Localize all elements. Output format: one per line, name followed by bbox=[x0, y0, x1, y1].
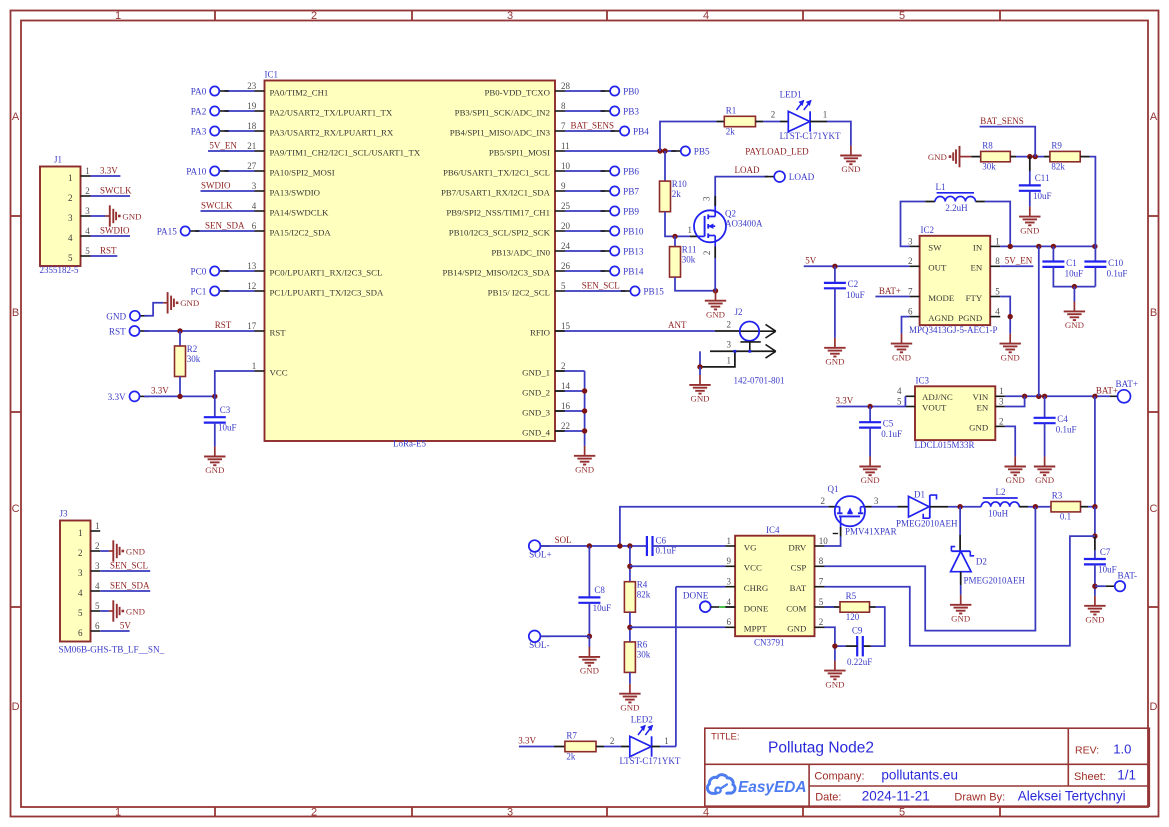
svg-text:GND: GND bbox=[825, 679, 844, 689]
svg-text:TITLE:: TITLE: bbox=[711, 732, 740, 743]
junction D2 node bbox=[957, 504, 962, 509]
svg-text:PB5/SPI1_MOSI: PB5/SPI1_MOSI bbox=[489, 147, 550, 157]
svg-text:1: 1 bbox=[688, 225, 693, 235]
svg-text:14: 14 bbox=[561, 381, 571, 391]
svg-text:IC2: IC2 bbox=[921, 225, 935, 235]
svg-text:IC4: IC4 bbox=[766, 525, 780, 535]
svg-text:2k: 2k bbox=[726, 126, 736, 136]
capacitor C10 0.1uF bbox=[1094, 246, 1096, 261]
svg-text:EN: EN bbox=[970, 263, 982, 273]
junction IN/L1 bbox=[1008, 244, 1013, 249]
svg-text:C7: C7 bbox=[1100, 547, 1111, 557]
wire IC3 GND pin to ground bbox=[1005, 426, 1015, 456]
svg-text:30k: 30k bbox=[682, 254, 696, 264]
inductor L2 10uH bbox=[981, 487, 1019, 518]
svg-text:GND: GND bbox=[1020, 225, 1039, 235]
port PB14 bbox=[601, 266, 644, 276]
ground below LED1 bbox=[840, 146, 861, 175]
net label SWDIO on J1 pin4 bbox=[91, 235, 131, 237]
svg-text:GND: GND bbox=[106, 311, 126, 321]
svg-text:IC3: IC3 bbox=[916, 376, 930, 386]
svg-text:GND: GND bbox=[126, 606, 145, 616]
svg-text:L1: L1 bbox=[936, 182, 946, 192]
svg-text:5: 5 bbox=[897, 396, 902, 406]
svg-text:VIN: VIN bbox=[973, 392, 989, 402]
wire PB13 bbox=[565, 250, 605, 252]
IC1 left pins with names and numbers bbox=[247, 81, 421, 377]
junction C4 bbox=[1042, 394, 1047, 399]
svg-text:PB15/ I2C2_SCL: PB15/ I2C2_SCL bbox=[488, 287, 550, 297]
port PA15 bbox=[157, 226, 200, 236]
port GND bbox=[106, 311, 149, 322]
svg-text:3: 3 bbox=[78, 568, 83, 578]
capacitor C3 10uF bbox=[214, 396, 216, 417]
port PB0 bbox=[601, 86, 640, 96]
wire R8 to junction bbox=[1010, 156, 1016, 158]
resistor R11 30k bbox=[674, 236, 676, 246]
R4 R6 divider bbox=[629, 546, 631, 582]
svg-text:SEN_SDA: SEN_SDA bbox=[110, 580, 150, 590]
svg-text:PB0: PB0 bbox=[623, 87, 639, 97]
svg-text:4: 4 bbox=[727, 597, 732, 607]
svg-text:2.2uH: 2.2uH bbox=[945, 203, 968, 213]
svg-text:R7: R7 bbox=[566, 730, 577, 740]
wire Q1 drain to D1 bbox=[865, 506, 871, 508]
svg-text:0.1uF: 0.1uF bbox=[656, 546, 677, 556]
svg-text:C10: C10 bbox=[1108, 258, 1124, 268]
svg-text:9: 9 bbox=[561, 181, 566, 191]
svg-text:5V_EN: 5V_EN bbox=[209, 140, 237, 150]
port PB4 bbox=[611, 126, 650, 136]
svg-text:R5: R5 bbox=[846, 591, 857, 601]
J2 pin3 node square a bbox=[734, 350, 737, 353]
svg-text:PA2/USART2_TX/LPUART1_TX: PA2/USART2_TX/LPUART1_TX bbox=[270, 107, 393, 117]
svg-text:COM: COM bbox=[786, 603, 806, 613]
capacitor C8 plates bbox=[578, 585, 611, 613]
junction C7 top bbox=[1092, 533, 1097, 538]
ground below IC3 GND pin bbox=[1005, 457, 1026, 486]
svg-text:5: 5 bbox=[995, 286, 1000, 296]
svg-text:Company:: Company: bbox=[814, 771, 864, 783]
svg-text:26: 26 bbox=[561, 261, 571, 271]
svg-text:PA9/TIM1_CH2/I2C1_SCL/USART1_T: PA9/TIM1_CH2/I2C1_SCL/USART1_TX bbox=[270, 147, 421, 157]
svg-text:2: 2 bbox=[908, 256, 913, 266]
svg-text:4: 4 bbox=[703, 10, 709, 22]
svg-text:Q2: Q2 bbox=[725, 209, 736, 219]
svg-text:D: D bbox=[12, 701, 20, 713]
AGND wire to ground bbox=[902, 317, 910, 334]
svg-text:30k: 30k bbox=[982, 161, 996, 171]
svg-text:0.1uF: 0.1uF bbox=[1107, 268, 1128, 278]
svg-text:GND: GND bbox=[787, 624, 806, 634]
wire PB0 bbox=[565, 90, 605, 92]
junction R3/BAT+ riser bbox=[1092, 504, 1097, 509]
svg-text:GND: GND bbox=[690, 394, 709, 404]
wire to ground below C8 bbox=[588, 636, 590, 647]
svg-text:SWCLK: SWCLK bbox=[201, 200, 233, 210]
svg-text:27: 27 bbox=[247, 161, 257, 171]
svg-text:GND: GND bbox=[841, 164, 860, 174]
inductor L1 2.2uH with wires bbox=[901, 202, 926, 247]
svg-text:8: 8 bbox=[819, 556, 824, 566]
svg-text:PB9: PB9 bbox=[623, 207, 639, 217]
svg-text:GND: GND bbox=[180, 298, 199, 308]
svg-text:5: 5 bbox=[561, 281, 566, 291]
svg-text:PB4/SPI1_MISO/ADC_IN3: PB4/SPI1_MISO/ADC_IN3 bbox=[450, 127, 551, 137]
svg-text:3: 3 bbox=[727, 577, 732, 587]
svg-text:BAT-: BAT- bbox=[1118, 571, 1138, 581]
svg-text:VOUT: VOUT bbox=[922, 402, 947, 412]
svg-text:GND: GND bbox=[205, 465, 224, 475]
wire PB15 / net SEN_SCL bbox=[565, 290, 626, 292]
svg-text:PB6/USART1_TX/I2C1_SCL: PB6/USART1_TX/I2C1_SCL bbox=[443, 167, 550, 177]
wire PB5 down to R10 bbox=[664, 151, 666, 181]
net label SEN_SDA on J3 pin4 bbox=[100, 590, 150, 592]
svg-text:28: 28 bbox=[561, 81, 571, 91]
resistor R9 82k bbox=[1050, 140, 1080, 171]
port PA2 bbox=[191, 106, 229, 116]
svg-text:SWDIO: SWDIO bbox=[100, 225, 130, 235]
svg-text:C11: C11 bbox=[1035, 173, 1050, 183]
svg-text:Drawn By:: Drawn By: bbox=[954, 792, 1005, 804]
svg-text:BAT_SENS: BAT_SENS bbox=[571, 120, 615, 130]
svg-text:GND: GND bbox=[892, 352, 911, 362]
svg-text:B: B bbox=[1150, 307, 1157, 319]
svg-text:RST: RST bbox=[109, 327, 126, 337]
svg-text:10uF: 10uF bbox=[1033, 191, 1052, 201]
svg-text:15: 15 bbox=[561, 321, 571, 331]
svg-text:PA15: PA15 bbox=[157, 227, 177, 237]
diode D1 PMEG2010AEH bbox=[896, 490, 958, 529]
svg-text:25: 25 bbox=[561, 201, 571, 211]
ground below C1 C10 bbox=[1064, 302, 1085, 331]
svg-text:4: 4 bbox=[68, 233, 73, 243]
svg-text:1: 1 bbox=[95, 521, 100, 531]
junction 3.3V/C3 bbox=[212, 394, 217, 399]
junction IN/down-wire bbox=[1036, 244, 1041, 249]
svg-text:J3: J3 bbox=[60, 508, 69, 518]
net label SWDIO on PA13 bbox=[201, 190, 255, 192]
capacitor C1 10uF bbox=[1052, 246, 1054, 261]
capacitor C3 plates bbox=[204, 405, 237, 433]
svg-text:PA10: PA10 bbox=[186, 167, 206, 177]
svg-text:2: 2 bbox=[311, 807, 317, 819]
wire PC0 bbox=[225, 270, 255, 272]
IC4 GND pin wire bbox=[825, 627, 835, 660]
power flag GND on J1 pin3 bbox=[105, 205, 141, 226]
svg-text:PC1/LPUART1_TX/I2C3_SDA: PC1/LPUART1_TX/I2C3_SDA bbox=[270, 287, 384, 297]
svg-text:D: D bbox=[1150, 701, 1158, 713]
diode D2 PMEG2010AEH (freewheel) bbox=[959, 507, 961, 535]
svg-text:EasyEDA: EasyEDA bbox=[738, 779, 806, 796]
svg-text:EN: EN bbox=[976, 402, 988, 412]
wire PB5 to R1 bbox=[660, 122, 717, 152]
svg-text:1/1: 1/1 bbox=[1117, 768, 1136, 783]
svg-text:LTST-C171YKT: LTST-C171YKT bbox=[780, 131, 841, 141]
junction PGND bbox=[1008, 314, 1013, 319]
wire L2 to R3 bbox=[1019, 506, 1028, 508]
resistor R2 30k body bbox=[175, 344, 201, 377]
svg-text:4: 4 bbox=[897, 386, 902, 396]
FTY/PGND wire to ground bbox=[1000, 297, 1010, 334]
svg-text:3: 3 bbox=[252, 181, 257, 191]
VIN row wire to BAT+ port bbox=[1005, 395, 1110, 397]
svg-text:10: 10 bbox=[561, 161, 571, 171]
wire Q2 source down bbox=[714, 247, 716, 259]
wire D2 anode to ground bbox=[960, 572, 962, 585]
svg-text:GND: GND bbox=[1085, 615, 1104, 625]
resistor R10 2k bbox=[660, 179, 688, 212]
power flag GND left of R8 bbox=[928, 146, 971, 167]
svg-text:3: 3 bbox=[68, 213, 73, 223]
svg-text:3.3V: 3.3V bbox=[518, 736, 536, 746]
svg-text:13: 13 bbox=[247, 261, 257, 271]
svg-text:GND: GND bbox=[126, 546, 145, 556]
capacitor C6 plates bbox=[647, 535, 676, 556]
junction SOL- row bbox=[587, 634, 592, 639]
svg-text:PA15/I2C2_SDA: PA15/I2C2_SDA bbox=[270, 227, 332, 237]
svg-text:AGND: AGND bbox=[928, 313, 953, 323]
capacitor C4 plates bbox=[1034, 414, 1077, 435]
resistor R8 30k bbox=[981, 140, 1011, 171]
svg-text:2: 2 bbox=[85, 186, 90, 196]
svg-text:2: 2 bbox=[727, 319, 732, 329]
svg-text:C: C bbox=[1150, 503, 1158, 515]
wire PA2 bbox=[225, 110, 255, 112]
svg-text:2: 2 bbox=[999, 416, 1004, 426]
svg-text:IN: IN bbox=[973, 243, 983, 253]
junction C2 bbox=[832, 264, 837, 269]
svg-text:10uF: 10uF bbox=[1065, 268, 1084, 278]
svg-text:PGND: PGND bbox=[958, 313, 982, 323]
svg-text:C3: C3 bbox=[220, 405, 231, 415]
svg-text:2k: 2k bbox=[566, 751, 576, 761]
svg-text:GND: GND bbox=[1006, 475, 1025, 485]
wire 3.3V row to VCC bbox=[144, 395, 215, 397]
net 5V wire on OUT bbox=[804, 265, 910, 267]
port PB13 bbox=[601, 246, 644, 256]
svg-text:BAT: BAT bbox=[790, 583, 807, 593]
port PC0 bbox=[190, 266, 228, 276]
IC4 CN3791 body bbox=[735, 525, 814, 648]
svg-text:GND: GND bbox=[122, 211, 141, 221]
port SOL+ bbox=[529, 540, 552, 559]
svg-text:PMV41XPAR: PMV41XPAR bbox=[845, 526, 897, 536]
svg-text:5: 5 bbox=[78, 608, 83, 618]
wire PA0 bbox=[225, 90, 255, 92]
port PB6 bbox=[601, 166, 640, 176]
IC2 pins bbox=[908, 236, 1000, 323]
svg-text:8: 8 bbox=[995, 256, 1000, 266]
net label 5V_EN on PA9 bbox=[208, 150, 255, 152]
LED LED2 LTST-C171YKT bbox=[620, 714, 681, 766]
svg-text:5: 5 bbox=[68, 253, 73, 263]
svg-text:3.3V: 3.3V bbox=[108, 392, 126, 402]
svg-text:VCC: VCC bbox=[744, 563, 762, 573]
ground below C8 bbox=[579, 647, 600, 676]
wire PB10 bbox=[565, 230, 605, 232]
svg-text:1: 1 bbox=[727, 355, 732, 365]
net BAT_SENS wire and label bbox=[980, 127, 1036, 157]
junction VCC row bbox=[627, 564, 632, 569]
svg-text:LED2: LED2 bbox=[631, 714, 653, 724]
junction 3.3V/R2 bbox=[177, 394, 182, 399]
svg-text:GND: GND bbox=[1065, 320, 1084, 330]
svg-text:12: 12 bbox=[247, 281, 256, 291]
svg-text:21: 21 bbox=[247, 141, 256, 151]
svg-text:5: 5 bbox=[899, 10, 905, 22]
svg-text:PA10/SPI2_MOSI: PA10/SPI2_MOSI bbox=[270, 167, 335, 177]
svg-text:C2: C2 bbox=[848, 279, 859, 289]
svg-text:PC0: PC0 bbox=[190, 267, 206, 277]
connector J3 SM06B body bbox=[59, 508, 165, 654]
svg-text:PB3/SPI1_SCK/ADC_IN2: PB3/SPI1_SCK/ADC_IN2 bbox=[455, 107, 550, 117]
svg-text:C5: C5 bbox=[883, 419, 894, 429]
transistor Q1 PMV41XPAR bbox=[828, 484, 897, 536]
wire PB3 bbox=[565, 110, 605, 112]
IC1 ground pins bus wire bbox=[555, 370, 565, 372]
svg-text:4: 4 bbox=[78, 588, 83, 598]
svg-text:1: 1 bbox=[115, 807, 121, 819]
wire RFIO to J2 / net ANT bbox=[555, 330, 565, 332]
svg-text:GND: GND bbox=[1001, 352, 1020, 362]
title block table bbox=[705, 728, 1150, 806]
connector J2 142-0701-801 bbox=[701, 307, 785, 385]
svg-text:AO3400A: AO3400A bbox=[725, 219, 763, 229]
IC4 pins bbox=[725, 536, 828, 634]
ground below Q2 bbox=[705, 291, 726, 320]
svg-text:3.3V: 3.3V bbox=[836, 396, 854, 406]
svg-text:1: 1 bbox=[995, 236, 1000, 246]
svg-text:RST: RST bbox=[270, 327, 287, 337]
svg-text:R11: R11 bbox=[682, 244, 697, 254]
svg-text:2: 2 bbox=[702, 251, 712, 256]
svg-text:LOAD: LOAD bbox=[735, 165, 760, 175]
svg-text:23: 23 bbox=[247, 81, 257, 91]
svg-text:1: 1 bbox=[664, 736, 669, 746]
resistor R11 30k body bbox=[670, 244, 697, 277]
svg-text:2: 2 bbox=[561, 361, 566, 371]
svg-text:10: 10 bbox=[819, 536, 829, 546]
svg-text:3: 3 bbox=[874, 496, 879, 506]
vertical wire IN row to VIN row bbox=[1038, 246, 1040, 396]
junction GND_3 bbox=[582, 408, 587, 413]
svg-text:2: 2 bbox=[819, 617, 824, 627]
wire PA15 / net SEN_SDA bbox=[195, 230, 254, 232]
svg-text:PB14/SPI2_MISO/I2C3_SDA: PB14/SPI2_MISO/I2C3_SDA bbox=[442, 267, 550, 277]
ground below R6 bbox=[619, 684, 640, 713]
port PB10 bbox=[601, 226, 644, 236]
svg-text:GND_2: GND_2 bbox=[522, 387, 550, 397]
wire J3 pin5 to GND flag bbox=[100, 610, 109, 612]
svg-text:C: C bbox=[12, 503, 20, 515]
wire R1 to LED1 bbox=[756, 121, 764, 123]
svg-text:10uF: 10uF bbox=[1098, 564, 1117, 574]
svg-text:R3: R3 bbox=[1052, 491, 1063, 501]
net label 5V_EN on EN bbox=[1000, 265, 1033, 267]
svg-text:C8: C8 bbox=[594, 585, 605, 595]
svg-text:16: 16 bbox=[561, 401, 571, 411]
svg-text:1: 1 bbox=[999, 386, 1004, 396]
svg-text:PB9/SPI2_NSS/TIM17_CH1: PB9/SPI2_NSS/TIM17_CH1 bbox=[446, 207, 550, 217]
svg-text:10uH: 10uH bbox=[988, 508, 1009, 518]
svg-text:3: 3 bbox=[507, 807, 513, 819]
svg-text:GND: GND bbox=[620, 702, 639, 712]
svg-text:82k: 82k bbox=[637, 590, 651, 600]
svg-text:R10: R10 bbox=[672, 179, 688, 189]
svg-text:17: 17 bbox=[247, 321, 257, 331]
port SOL- bbox=[529, 631, 550, 650]
svg-text:1: 1 bbox=[823, 110, 828, 120]
svg-text:PB7/USART1_RX/I2C1_SDA: PB7/USART1_RX/I2C1_SDA bbox=[441, 187, 551, 197]
svg-text:9: 9 bbox=[727, 556, 732, 566]
svg-text:PB5: PB5 bbox=[694, 147, 710, 157]
svg-text:Date:: Date: bbox=[815, 792, 841, 804]
port PA3 bbox=[191, 126, 229, 136]
resistor R2 30k bbox=[179, 331, 181, 346]
svg-text:PB6: PB6 bbox=[623, 167, 639, 177]
J3 pins bbox=[78, 521, 100, 638]
resistor R3 0.1 bbox=[1051, 491, 1081, 522]
svg-text:0.22uF: 0.22uF bbox=[847, 657, 872, 667]
ground below IC1 bbox=[574, 446, 595, 475]
svg-text:3.3V: 3.3V bbox=[151, 385, 169, 395]
svg-text:GND: GND bbox=[951, 614, 970, 624]
ground below C5 bbox=[859, 457, 880, 486]
wire PA3 bbox=[225, 130, 255, 132]
ground below C4 bbox=[1034, 457, 1055, 486]
svg-text:A: A bbox=[1150, 111, 1158, 123]
svg-text:PB0-VDD_TCXO: PB0-VDD_TCXO bbox=[485, 87, 551, 97]
ground below C3 bbox=[204, 447, 225, 476]
svg-text:6: 6 bbox=[727, 617, 732, 627]
svg-text:2: 2 bbox=[68, 193, 73, 203]
svg-text:BAT+: BAT+ bbox=[879, 286, 901, 296]
svg-text:2355182-5: 2355182-5 bbox=[40, 265, 79, 275]
wire PB14 bbox=[565, 270, 605, 272]
J2 pin3 node square b bbox=[748, 350, 751, 353]
capacitor C2 plates bbox=[824, 279, 865, 300]
svg-text:FTY: FTY bbox=[966, 293, 983, 303]
svg-text:4: 4 bbox=[703, 807, 709, 819]
svg-text:11: 11 bbox=[561, 141, 570, 151]
svg-text:1: 1 bbox=[68, 173, 73, 183]
capacitor C10 plates bbox=[1084, 258, 1127, 279]
net label SWCLK on J1 pin2 bbox=[91, 195, 131, 197]
svg-text:PA3: PA3 bbox=[191, 127, 207, 137]
svg-text:MODE: MODE bbox=[928, 293, 954, 303]
svg-text:GND: GND bbox=[580, 666, 599, 676]
svg-text:GND: GND bbox=[861, 475, 880, 485]
net label 5V on J3 pin6 bbox=[100, 630, 129, 632]
svg-text:0.1: 0.1 bbox=[1060, 512, 1071, 522]
svg-text:LED1: LED1 bbox=[780, 89, 802, 99]
BAT sense wire bbox=[825, 536, 1095, 646]
junction GND_2 bbox=[582, 388, 587, 393]
svg-text:5V: 5V bbox=[120, 620, 131, 630]
connector J1 2355182-5 body bbox=[40, 154, 81, 275]
svg-text:J1: J1 bbox=[54, 154, 62, 164]
power flag GND on J3 pin2 bbox=[109, 540, 145, 561]
power flag GND on J3 pin5 bbox=[109, 600, 145, 621]
svg-text:82k: 82k bbox=[1051, 161, 1065, 171]
svg-text:8: 8 bbox=[561, 101, 566, 111]
svg-text:10uF: 10uF bbox=[593, 603, 612, 613]
wire J2 pin3 to pin1 bbox=[699, 351, 701, 367]
J1 pins bbox=[68, 166, 91, 263]
svg-text:ADJ/NC: ADJ/NC bbox=[922, 392, 953, 402]
svg-text:PB13/ADC_IN0: PB13/ADC_IN0 bbox=[491, 247, 550, 257]
